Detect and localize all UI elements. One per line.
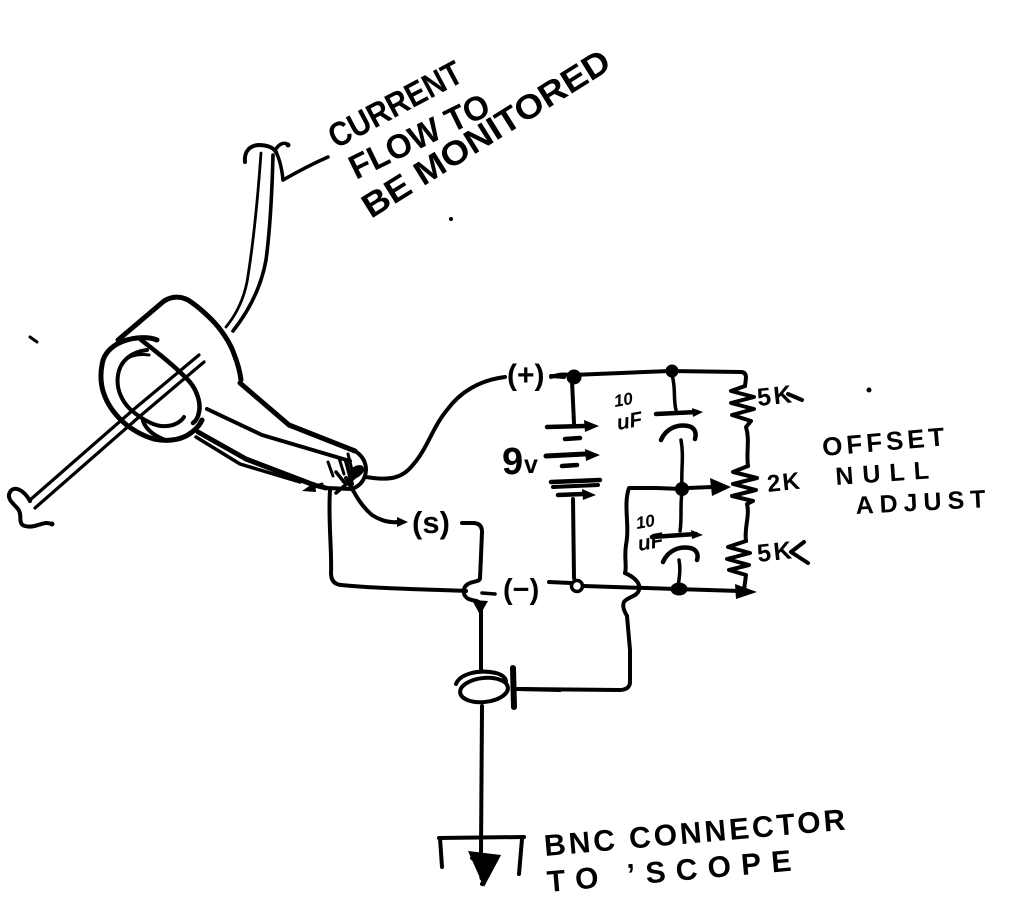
capacitor C1 wire bottom	[681, 440, 682, 486]
capacitor C2 top plate	[652, 534, 696, 537]
probe tip hatch wires	[328, 454, 367, 493]
wire: down from wiper node wire (left branch)	[625, 488, 629, 573]
battery plate 1 (long, arrow)	[547, 426, 585, 427]
annotation OFFSET NULL ADJUST	[821, 421, 992, 520]
svg-text:(+): (+)	[507, 359, 545, 392]
stray tick top-left	[30, 337, 37, 342]
label 9v	[502, 441, 538, 483]
battery dash 2	[562, 465, 577, 466]
wire: bottom rail	[549, 582, 740, 591]
small tick right of crossover	[482, 593, 495, 594]
BNC bar	[513, 668, 514, 707]
battery wire bottom	[573, 499, 574, 578]
wire: lower exit end squiggle	[9, 489, 51, 527]
capacitor C2 bottom plate (curved)	[663, 548, 698, 562]
wire: current conductor upper curl	[245, 143, 291, 181]
current transformer probe: drum (top cylinder)	[118, 297, 241, 380]
wire: current conductor upper (double line into drum)	[226, 153, 273, 331]
stray dot right of 5K	[867, 388, 872, 393]
capacitor C1 top plate	[656, 412, 697, 414]
svg-text:2K: 2K	[766, 467, 803, 497]
wire: output node down to BNC	[481, 607, 482, 852]
capacitor C2 wire top	[680, 492, 682, 531]
capacitor C1 bottom plate (curved)	[661, 426, 696, 440]
capacitor C2 wire bottom	[678, 560, 680, 588]
battery dash 1	[565, 438, 580, 439]
annotation BNC CONNECTOR TO 'SCOPE	[543, 804, 850, 899]
label 10uF (C2)	[634, 511, 666, 556]
wire: (s) right then down to output node	[462, 523, 482, 578]
BNC extra arc	[456, 672, 506, 684]
bottom rail right arrow	[735, 584, 757, 599]
junction dot: C1/top rail	[666, 365, 679, 378]
wire: wiper node left	[630, 488, 682, 489]
5K (R1) K leg flourish	[788, 394, 802, 400]
battery B1 wire top	[572, 381, 574, 423]
junction dot: C2 bottom	[671, 583, 688, 596]
BNC connector ellipse	[459, 676, 509, 705]
svg-text:uF: uF	[615, 408, 645, 435]
svg-text:NULL: NULL	[834, 456, 938, 491]
toroid ring inner hole (left arc)	[118, 350, 184, 426]
svg-text:9: 9	[502, 441, 523, 483]
current transformer probe: toroid ring outer	[101, 338, 202, 441]
svg-text:BNC CONNECTOR: BNC CONNECTOR	[543, 804, 850, 863]
svg-text:10: 10	[612, 389, 634, 411]
wire: continue down to BNC line	[519, 616, 630, 690]
svg-text:(s): (s)	[412, 505, 450, 540]
resistor R3 5K (zigzag)	[727, 541, 750, 590]
svg-text:uF: uF	[636, 529, 666, 556]
crossover curl at (-) node	[464, 578, 480, 603]
junction dot: wiper node	[675, 482, 689, 496]
annotation: CURRENT FLOW TO BE MONITORED	[321, 41, 617, 225]
label pointer line	[283, 157, 328, 180]
wire: probe ground lead down and right along bottom	[329, 490, 466, 591]
junction dot: battery/top rail	[567, 370, 582, 385]
probe tip small arrow (left)	[310, 484, 322, 488]
junction ring: battery bottom	[572, 581, 583, 592]
toroid inner hole double stroke	[122, 354, 149, 363]
wire: probe output to (+) terminal (S curve)	[366, 377, 505, 479]
ground arrow (big, filled)	[468, 851, 501, 887]
svg-text:(−): (−)	[503, 574, 539, 606]
probe body bar (3D prism)	[196, 383, 366, 489]
svg-text:v: v	[524, 451, 538, 479]
wire: current conductor through hole / lower exit (double line)	[30, 355, 204, 508]
potentiometer R2 2K (zigzag)	[732, 466, 757, 541]
capacitor C1 wire top	[672, 375, 676, 410]
crossover squiggle at bottom rail	[623, 573, 639, 616]
wire: BNC to divider (horizontal)	[517, 689, 560, 690]
label 10uF (C1)	[612, 389, 645, 435]
5K (R3) K leg flourish	[791, 542, 808, 563]
battery plate 2 (long, arrow)	[546, 454, 585, 456]
battery plate 3 (long, doubled)	[551, 480, 600, 482]
stray dot below annotation	[449, 217, 453, 221]
svg-text:ADJUST: ADJUST	[855, 485, 992, 520]
battery plate 4 (short, arrow)	[558, 494, 583, 495]
potentiometer wiper arrow	[688, 487, 712, 488]
toroid bottom extra arc	[143, 421, 163, 439]
resistor R1 5K (zigzag)	[731, 386, 754, 466]
BNC shell bracket	[439, 837, 524, 874]
wire: probe sense lead to (s)	[346, 478, 398, 522]
toroid inner wall crescent (right)	[140, 339, 200, 423]
wire: top rail	[551, 371, 746, 386]
